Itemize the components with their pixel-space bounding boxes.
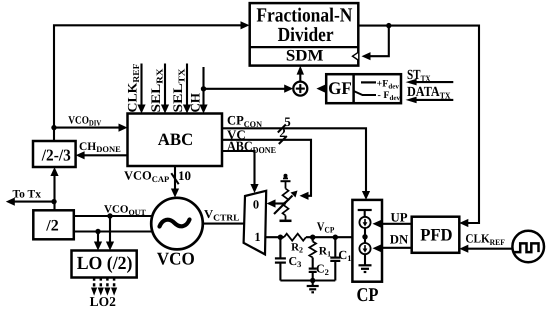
wire VCO_DIV into ABC xyxy=(54,114,128,131)
resistor R2 xyxy=(284,234,306,255)
CP box xyxy=(352,200,382,306)
divider U-DIV box Fractional-N Divider xyxy=(250,3,359,66)
mux 2to1 trapezoid xyxy=(244,191,267,255)
wire lower from VCO to /2 xyxy=(74,230,154,232)
wire CP_CON bus from ABC to CP xyxy=(222,113,370,200)
svg-text:ABC: ABC xyxy=(158,130,194,149)
wire CH to adder xyxy=(204,85,294,93)
svg-text:DN: DN xyxy=(390,233,409,247)
wire VCO_OUT upper from VCO to /2 xyxy=(74,204,153,217)
capacitor C3 xyxy=(275,237,302,280)
wire divider output to PFD xyxy=(358,26,479,228)
supply bar inside CP xyxy=(358,210,372,217)
svg-text:CP: CP xyxy=(357,285,379,306)
wire filter bottom rail xyxy=(280,279,335,281)
capacitor C1 xyxy=(330,237,351,280)
wire ABC_DONE from ABC to mux select xyxy=(222,138,276,193)
wire V_CTRL from mux to VCO xyxy=(203,207,245,224)
svg-text:LO (/2): LO (/2) xyxy=(77,253,133,274)
supply symbol above trimmer xyxy=(281,174,291,189)
input arrow CH into ABC top xyxy=(188,67,208,114)
svg-text:UP: UP xyxy=(390,210,407,224)
wire DN from PFD to CP xyxy=(373,233,412,253)
LO box xyxy=(72,251,137,278)
svg-text:Divider: Divider xyxy=(278,24,334,46)
VCO oscillator circle xyxy=(151,198,203,269)
input DATA_TX arrow into GF xyxy=(406,85,454,103)
wire GF to adder xyxy=(316,85,326,93)
GF box xyxy=(326,74,401,103)
node bottom rail junction xyxy=(310,278,315,283)
svg-text:/2-/3: /2-/3 xyxy=(41,146,71,165)
wire from To-Tx junction up into /2-/3 xyxy=(50,167,58,210)
node lower tap xyxy=(95,229,100,234)
PFD box xyxy=(412,217,460,253)
wire trimmer to mux input 0 xyxy=(267,199,287,207)
svg-text:SDM: SDM xyxy=(286,48,324,65)
node tap VCO_DIV on feedback wire xyxy=(51,125,56,130)
wire divider feedback from /2-/3 to Fractional-N Divider input xyxy=(54,21,250,141)
svg-text:CH: CH xyxy=(188,93,203,113)
svg-text:To Tx: To Tx xyxy=(13,188,42,200)
/2-/3 box xyxy=(33,141,76,167)
crystal clock source circle xyxy=(512,231,544,263)
/2 box xyxy=(33,210,74,239)
resistor R1 xyxy=(309,237,331,268)
trimmer wiper arrow xyxy=(274,191,298,215)
node filter taps xyxy=(278,235,338,240)
svg-text:PFD: PFD xyxy=(420,224,452,244)
wire CP output node xyxy=(364,228,366,244)
wire arrow lower tap into LO box xyxy=(94,232,102,251)
input arrow CLK_REF into ABC top xyxy=(125,63,146,114)
wire CLK_REF from crystal to PFD xyxy=(459,232,512,253)
svg-text:VCO: VCO xyxy=(157,249,195,269)
svg-text:0: 0 xyxy=(253,198,259,212)
capacitor C2 xyxy=(309,262,329,281)
node VCO_OUT upper tap xyxy=(107,213,112,218)
trimmer resistor (calibration DAC) xyxy=(283,189,289,220)
wire VCO_CAP bus from ABC to VCO xyxy=(124,166,191,198)
node divider output junction xyxy=(386,23,391,28)
ABC box xyxy=(128,114,223,167)
wire UP from PFD to CP xyxy=(373,210,412,228)
wire CH_DONE from ABC to /2-/3 xyxy=(76,141,128,159)
LO2 dashed output arrows xyxy=(90,277,118,309)
current source UP xyxy=(359,217,370,228)
node junction CH to adder xyxy=(201,86,206,91)
current source DN xyxy=(359,243,370,254)
ground filter xyxy=(307,281,319,293)
input ST_TX arrow into GF xyxy=(406,68,454,86)
ground bar under trimmer xyxy=(280,220,292,223)
svg-text:2: 2 xyxy=(279,125,286,140)
svg-text:10: 10 xyxy=(178,168,191,183)
svg-text:GF: GF xyxy=(328,78,352,98)
svg-text:/2: /2 xyxy=(45,217,58,234)
switch +Fdev/-Fdev inside GF xyxy=(354,78,401,102)
ground inside CP xyxy=(359,255,372,272)
input arrow SEL_RX into ABC top xyxy=(148,64,169,114)
wire adder to SDM xyxy=(297,66,304,82)
wire feedback to SDM input xyxy=(353,26,389,61)
wire loop filter node V_CP xyxy=(265,219,352,237)
input arrow SEL_TX into ABC top xyxy=(170,64,191,114)
node To Tx junction xyxy=(51,199,56,204)
wire To Tx output arrow xyxy=(6,188,54,205)
wire VC from ABC to varactor xyxy=(222,125,311,200)
svg-text:LO2: LO2 xyxy=(90,294,117,309)
wire arrow upper tap into LO box xyxy=(106,216,114,251)
svg-text:1: 1 xyxy=(254,230,260,244)
adder sigma xyxy=(293,82,307,96)
